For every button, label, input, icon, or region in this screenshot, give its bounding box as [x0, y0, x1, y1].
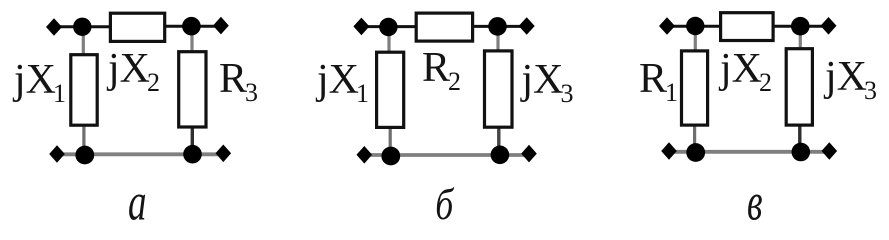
svg-text:б: б — [435, 180, 455, 229]
svg-text:в: в — [747, 174, 763, 230]
svg-text:а: а — [128, 174, 147, 230]
